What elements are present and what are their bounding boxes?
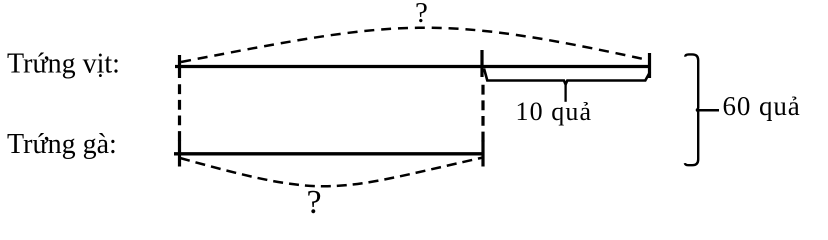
dashed vertical right: [481, 79, 484, 143]
duck bar left tick: [178, 55, 181, 78]
bottom dashed arc: [180, 158, 483, 187]
brace 10 qua: [484, 69, 650, 102]
svg-text:60 quả: 60 quả: [723, 91, 801, 121]
dashed vertical left: [178, 79, 181, 142]
label "Trứng vịt:": [7, 48, 120, 79]
chicken bar left tick: [178, 141, 181, 167]
label "Trứng gà:": [7, 129, 117, 160]
chicken bar right tick: [481, 141, 484, 167]
svg-text:10 quả: 10 quả: [516, 97, 593, 126]
duck bar middle tick: [480, 50, 483, 77]
svg-text:Trứng vịt:: Trứng vịt:: [7, 48, 120, 79]
svg-text:?: ?: [307, 184, 322, 216]
top dashed arc: [181, 28, 648, 62]
top question mark: [415, 0, 428, 29]
chicken bar: [174, 152, 485, 155]
brace 60 qua: [685, 54, 719, 165]
svg-text:Trứng gà:: Trứng gà:: [7, 129, 117, 160]
svg-text:?: ?: [415, 0, 428, 29]
bottom question mark: [307, 184, 322, 221]
duck bar right tick: [648, 53, 651, 78]
label "60 quả": [723, 91, 801, 121]
label "10 quả": [516, 97, 593, 126]
duck bar: [175, 65, 651, 68]
